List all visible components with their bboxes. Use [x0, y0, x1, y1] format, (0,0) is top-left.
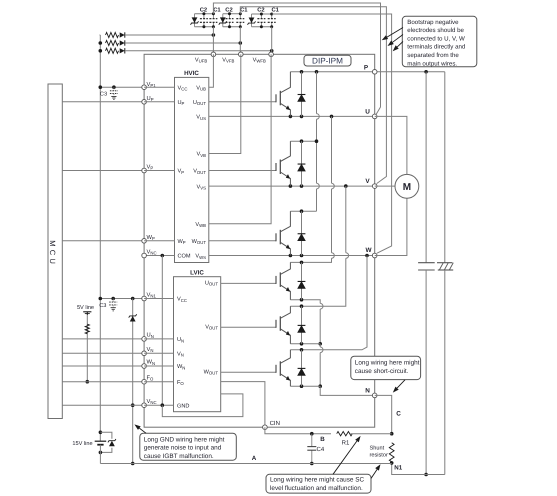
- svg-text:C1: C1: [213, 6, 221, 13]
- wire P bus vertical drop: [444, 72, 446, 263]
- wire bootstrap supply row U to bootstrap group 1: [125, 34, 213, 36]
- svg-text:separated from the: separated from the: [407, 52, 459, 59]
- wire Fo pin to LVIC: [144, 381, 173, 383]
- callout short-circuit note box: [351, 356, 421, 379]
- wire VVFB to HVIC VVB: [209, 54, 241, 153]
- junction Q4 emitter rail diode D4 anode: [300, 298, 304, 302]
- svg-text:VWB: VWB: [195, 222, 206, 228]
- diode D1 (freewheel): [301, 72, 303, 117]
- wire WP net (MCU to HVIC): [62, 240, 144, 242]
- svg-text:COM: COM: [178, 254, 191, 260]
- callout SC-fluctuation note box: [266, 474, 371, 493]
- junction W phase down tap: [365, 254, 369, 258]
- bootstrap group 3 bottom rail wire: [252, 26, 272, 28]
- junction C1 bottom g3: [270, 25, 273, 28]
- wire bootstrap group 2 down to VVFB pin: [239, 27, 241, 55]
- capacitor C3 lower (LVIC supply, dashed optional): [112, 299, 114, 303]
- pin V: [372, 184, 377, 189]
- wire rail top corner to resistor row 1: [99, 34, 102, 36]
- pin CIN: [263, 425, 268, 430]
- callout short-circuit arrow: [397, 380, 405, 388]
- svg-text:VN: VN: [177, 352, 184, 358]
- resistor bootstrap R3 (bootstrap supply row W): [106, 48, 119, 53]
- wire Q5 emitter rail: [290, 343, 320, 345]
- pin VNC upper: [142, 253, 147, 258]
- callout SC arrow to N1 wire: [371, 469, 377, 478]
- junction C3 top tap: [112, 85, 116, 89]
- wire 5V line to Fo pull-up resistor: [86, 315, 88, 382]
- junction C3 lower tap: [111, 297, 115, 301]
- wire rail to resistor row 2: [99, 42, 102, 44]
- pin WN: [142, 364, 147, 369]
- svg-text:VN1: VN1: [147, 293, 157, 299]
- resistor bootstrap R1 (bootstrap supply row U): [106, 32, 119, 37]
- junction P rail diode D1: [300, 70, 304, 74]
- svg-text:GND: GND: [177, 403, 189, 409]
- transistor Q4 (IGBT): [276, 262, 290, 299]
- wire bootstrap supply row W to bootstrap group 3: [125, 50, 272, 52]
- wire R1 to shunt top: [351, 433, 392, 435]
- wire battery to A net: [99, 445, 101, 464]
- wire U phase net (VUS to U terminal): [209, 115, 375, 117]
- wire zener column VN1 to A wire: [132, 299, 134, 464]
- earth ground symbol on bus return: [437, 262, 452, 264]
- junction Q5 emitter diode D5 anode: [300, 342, 304, 346]
- svg-text:FO: FO: [147, 375, 155, 381]
- svg-text:WOUT: WOUT: [192, 239, 207, 245]
- wire bootstrap negative electrode V route: [240, 7, 386, 184]
- svg-text:VP: VP: [147, 165, 154, 171]
- pin U: [372, 114, 377, 119]
- wire A net (15V return to N1): [100, 463, 391, 465]
- junction GND link: [161, 403, 165, 407]
- pin WP: [142, 239, 147, 244]
- junction C2 top g1: [202, 12, 205, 15]
- svg-text:WN: WN: [177, 364, 185, 370]
- 15V supply rail vertical wire: [99, 35, 101, 432]
- wire VNC lower net (MCU to GND): [62, 404, 144, 406]
- svg-text:C: C: [396, 411, 401, 418]
- pin VUFB: [211, 52, 216, 57]
- pin VNC lower: [142, 403, 147, 408]
- junction 5V pull-up at Fo wire: [86, 380, 90, 384]
- wire Q3 collector rail: [290, 210, 316, 212]
- pin VN: [142, 351, 147, 356]
- wire N net to N terminal: [320, 386, 375, 395]
- junction V phase down tap: [344, 184, 348, 188]
- svg-text:resistor: resistor: [370, 452, 388, 459]
- junction Q5 emitter rail join N vertical: [318, 342, 322, 346]
- transistor Q2 (IGBT): [276, 141, 290, 186]
- wire Q4 emitter rail to N vertical: [290, 300, 320, 304]
- svg-text:WN: WN: [147, 360, 156, 366]
- junction D3 anode at W wire: [300, 254, 304, 258]
- resistor Fo pull-up: [85, 324, 89, 334]
- junction Q2 rail P vertical: [315, 139, 319, 143]
- svg-text:VCC: VCC: [177, 297, 187, 303]
- wire W phase vertical to Q6 collector: [290, 256, 367, 350]
- junction bootstrap group 3 feed: [270, 49, 274, 53]
- junction C1 top g2: [239, 12, 242, 15]
- junction C2 bottom g3: [260, 25, 263, 28]
- transistor Q1 (IGBT): [276, 72, 290, 117]
- callout bootstrap arrow to U route: [387, 28, 403, 38]
- MCU block box: [48, 84, 62, 419]
- svg-text:Long GND wiring here might: Long GND wiring here might: [144, 437, 225, 444]
- svg-text:Long wiring here might: Long wiring here might: [355, 360, 420, 367]
- junction Q6 rail diode D6: [300, 348, 304, 352]
- wire bootstrap group 1 down to VUFB pin: [212, 27, 214, 55]
- svg-text:R1: R1: [342, 440, 350, 447]
- svg-text:C1: C1: [271, 6, 279, 13]
- pin Fo: [142, 379, 147, 384]
- svg-text:C3: C3: [99, 303, 106, 309]
- junction bus capacitor at bottom wire: [424, 473, 428, 477]
- svg-text:WOUT: WOUT: [204, 369, 219, 375]
- wire VP1 net (15V to VP1 pin): [100, 86, 144, 88]
- svg-text:VP: VP: [178, 169, 185, 175]
- wire VN1 net (15V to LVIC Vcc): [100, 298, 144, 300]
- diode D4 (freewheel): [301, 262, 303, 299]
- junction rail row 2: [99, 41, 103, 45]
- svg-text:C2: C2: [257, 6, 264, 13]
- svg-text:VUB: VUB: [196, 85, 206, 91]
- wire LVIC WOUT to IGBT Q6 gate: [221, 371, 276, 373]
- wire N vertical continue below Q5 emitter: [319, 344, 321, 347]
- callout SC arrow to R1: [333, 441, 357, 474]
- svg-text:VVS: VVS: [197, 184, 207, 190]
- capacitor C2 (group 2): [229, 14, 231, 19]
- svg-text:VOUT: VOUT: [205, 324, 218, 330]
- transistor Q3 (IGBT): [276, 211, 290, 255]
- junction C1 top g3: [270, 13, 273, 16]
- junction U phase down tap: [330, 115, 334, 119]
- pin UN: [142, 337, 147, 342]
- junction C2 bottom g2: [228, 25, 231, 28]
- junction Q6 emitter diode D6 anode: [300, 384, 304, 388]
- junction Q6 emitter rail join N vertical: [318, 384, 322, 388]
- wire battery top to zener branch: [100, 432, 112, 439]
- junction bootstrap group 1 feed: [212, 33, 216, 37]
- wire LVIC VOUT to IGBT Q5 gate: [221, 326, 276, 328]
- svg-text:terminals directly and: terminals directly and: [407, 44, 466, 51]
- svg-text:C2: C2: [225, 6, 232, 13]
- svg-text:CIN: CIN: [270, 420, 280, 427]
- junction bootstrap group 2 feed: [239, 41, 243, 45]
- wire U phase vertical to Q4 collector (hops over V and W wires): [331, 116, 333, 183]
- pin W: [372, 253, 377, 258]
- svg-text:electrodes should be: electrodes should be: [407, 27, 464, 34]
- wire N terminal to C node: [375, 395, 392, 433]
- wire bootstrap group 3 down to VWFB pin: [271, 27, 273, 55]
- shunt resistor: [389, 443, 394, 462]
- resistor bootstrap R2 (bootstrap supply row V): [106, 40, 119, 45]
- wire VWFB to HVIC VWB: [209, 54, 271, 223]
- wire bus return lower: [444, 270, 446, 475]
- svg-text:V: V: [365, 178, 370, 185]
- junction P rail inner vertical: [315, 70, 319, 74]
- svg-text:N: N: [365, 387, 370, 394]
- callout bootstrap arrow to W route: [397, 42, 403, 47]
- wire Q2 collector rail: [290, 140, 316, 142]
- svg-text:level fluctuation and malfunct: level fluctuation and malfunction.: [270, 485, 363, 492]
- wire VNC pin to LVIC GND: [144, 404, 173, 406]
- callout GND-noise note box: [140, 433, 237, 460]
- pin UP: [142, 100, 147, 105]
- junction zener tap VN1: [131, 297, 135, 301]
- junction P rail bus capacitor: [424, 70, 428, 74]
- wire V phase net (VVS to V terminal): [209, 185, 375, 187]
- motor M: [395, 174, 419, 198]
- svg-text:W: W: [365, 247, 372, 254]
- svg-text:M: M: [403, 182, 411, 193]
- wire rail to resistor row 3: [99, 50, 102, 52]
- svg-text:C3: C3: [100, 91, 107, 97]
- wire zener bottom to battery bottom: [100, 448, 112, 453]
- svg-text:VNC: VNC: [147, 250, 157, 256]
- junction C1 bottom g1: [212, 25, 215, 28]
- wire VUFB to HVIC VUB: [209, 54, 214, 87]
- callout bootstrap arrow to V route: [393, 35, 404, 43]
- resistor R1: [337, 432, 353, 436]
- zener diode 15V line clamp: [109, 441, 115, 447]
- svg-text:UN: UN: [147, 333, 154, 339]
- junction Q2 rail diode D2: [300, 139, 304, 143]
- svg-text:DIP-IPM: DIP-IPM: [312, 57, 343, 66]
- wire WN net (MCU to LVIC): [62, 365, 144, 367]
- svg-text:VVFB: VVFB: [222, 57, 234, 63]
- pin VWFB: [269, 52, 274, 57]
- wire DC bus capacitor branch upper: [425, 72, 427, 263]
- wire UP net (MCU to HVIC): [62, 101, 144, 103]
- svg-text:VWS: VWS: [195, 254, 206, 260]
- svg-text:HVIC: HVIC: [184, 70, 199, 77]
- wire VP pin to HVIC: [144, 170, 174, 172]
- wire Fo net (MCU to LVIC): [62, 381, 144, 383]
- svg-text:VNC: VNC: [147, 399, 157, 405]
- junction rail VN1: [99, 297, 103, 301]
- svg-text:VVB: VVB: [197, 152, 207, 158]
- capacitor C2 (group 3): [260, 14, 262, 19]
- svg-text:5V line: 5V line: [77, 304, 94, 311]
- pin P: [372, 70, 377, 75]
- svg-text:C4: C4: [317, 446, 325, 453]
- wire W phase net (VWS to W terminal): [209, 255, 375, 257]
- junction C4 top: [310, 432, 314, 436]
- wire DC bus capacitor branch lower: [425, 270, 427, 475]
- capacitor C1 (group 1): [212, 14, 214, 19]
- junction C2 top g3: [260, 13, 263, 16]
- svg-text:LVIC: LVIC: [190, 270, 204, 277]
- wire WP pin to HVIC: [144, 240, 174, 242]
- wire COM to GND vertical link: [161, 256, 163, 406]
- junction D1 anode at U wire: [300, 115, 304, 119]
- svg-text:connected to U, V, W: connected to U, V, W: [407, 35, 465, 42]
- svg-text:U: U: [365, 109, 370, 116]
- pin VN1: [142, 296, 147, 301]
- wire N vertical continue to bottom emitter rail: [319, 353, 321, 387]
- wire bootstrap supply row V to bootstrap group 2: [125, 42, 240, 44]
- svg-text:FO: FO: [177, 380, 184, 386]
- zener diode bootstrap group 3: [251, 14, 253, 27]
- wire bootstrap negative electrode W route: [272, 14, 392, 253]
- bootstrap group 1 bottom rail wire: [195, 26, 214, 28]
- svg-text:UP: UP: [147, 96, 154, 102]
- svg-text:UOUT: UOUT: [193, 100, 206, 106]
- svg-text:P: P: [364, 65, 369, 72]
- junction C2 bottom g1: [202, 25, 205, 28]
- wire N vertical continue below Q5 rail: [319, 309, 321, 344]
- HVIC block box: [175, 77, 209, 262]
- junction Q3 emitter at W wire: [289, 254, 293, 258]
- wire HVIC WOUT to IGBT Q3 gate: [209, 240, 276, 242]
- pin N: [372, 393, 377, 398]
- wire P inner vertical to Q2 Q3 collectors (with hops): [316, 72, 318, 114]
- callout bootstrap note box: [402, 16, 477, 67]
- zener diode bootstrap group 2: [222, 14, 224, 27]
- DIP-IPM module outline box: [144, 54, 375, 427]
- svg-text:WP: WP: [147, 235, 155, 241]
- svg-text:VUS: VUS: [196, 115, 206, 121]
- svg-text:C1: C1: [240, 6, 248, 13]
- wire HVIC VOUT to IGBT Q2 gate: [209, 170, 276, 172]
- pin VP: [142, 168, 147, 173]
- junction zener column at VNC wire: [131, 403, 135, 407]
- svg-text:N1: N1: [394, 465, 402, 472]
- diode D3 (freewheel): [301, 211, 303, 255]
- wire UN net (MCU to LVIC): [62, 338, 144, 340]
- svg-text:B: B: [320, 436, 325, 443]
- svg-text:WP: WP: [178, 239, 186, 245]
- capacitor C3 (HVIC supply, dashed optional): [113, 87, 115, 91]
- wire LVIC N-side loop to GND: [162, 394, 243, 417]
- diode D6 (freewheel): [301, 350, 303, 386]
- capacitor C2 (group 1): [203, 14, 205, 19]
- diode D2 (freewheel): [301, 141, 303, 186]
- wire Q6 emitter rail: [290, 385, 320, 387]
- svg-text:Long wiring here might cause S: Long wiring here might cause SC: [270, 477, 365, 484]
- wire VP net (MCU to HVIC): [62, 170, 144, 172]
- zener diode bootstrap group 1: [194, 14, 196, 27]
- wire bottom return to shunt: [392, 463, 445, 475]
- wire WN pin to LVIC: [144, 365, 173, 367]
- svg-text:A: A: [252, 455, 257, 462]
- wire LVIC CIN out to CIN pin: [221, 382, 265, 428]
- wire HVIC UOUT to IGBT Q1 gate: [209, 101, 276, 103]
- bootstrap group 3 top rail wire: [252, 13, 272, 15]
- wire LVIC UOUT to IGBT Q4 gate: [221, 282, 276, 284]
- zener diode 15V clamp (LVIC): [130, 316, 136, 322]
- LVIC block box: [174, 277, 221, 412]
- junction zener column at A wire: [131, 462, 135, 466]
- diode D5 (freewheel): [301, 306, 303, 344]
- wire W terminal to motor: [375, 198, 407, 255]
- capacitor C4: [311, 434, 313, 447]
- battery 15V line symbol: [95, 440, 107, 442]
- bootstrap group 1 top rail wire: [195, 13, 214, 15]
- junction C4 bottom: [310, 462, 314, 466]
- svg-text:VWFB: VWFB: [253, 57, 266, 63]
- svg-text:VUFB: VUFB: [195, 57, 207, 63]
- wire V phase vertical to Q5 collector (hop over W wire): [345, 186, 347, 253]
- wire bootstrap negative electrode U route: [213, 3, 380, 114]
- wire VN1 pin to LVIC Vcc: [144, 298, 173, 300]
- svg-text:UN: UN: [177, 337, 184, 343]
- svg-text:C2: C2: [200, 6, 207, 13]
- svg-text:Bootstrap negative: Bootstrap negative: [407, 19, 459, 26]
- transistor Q6 (IGBT): [276, 350, 290, 386]
- junction C1 top g1: [212, 12, 215, 15]
- svg-text:generate noise to input and: generate noise to input and: [144, 445, 222, 452]
- diode bootstrap D3: [120, 48, 125, 53]
- junction D2 anode at V wire: [300, 184, 304, 188]
- junction C1 bottom g2: [239, 25, 242, 28]
- diode bootstrap D2: [120, 40, 125, 45]
- wire Q6 collector rail hop over N vertical: [320, 347, 323, 353]
- diode bootstrap D1: [120, 32, 125, 37]
- wire VN net (MCU to LVIC): [62, 352, 144, 354]
- wire UP pin to HVIC: [144, 101, 174, 103]
- junction Q5 rail diode D5: [300, 304, 304, 308]
- junction Q2 emitter at V wire: [289, 184, 293, 188]
- svg-text:VN: VN: [147, 347, 154, 353]
- svg-text:15V line: 15V line: [72, 440, 92, 447]
- junction rail row 3: [99, 49, 103, 53]
- bootstrap group 2 top rail wire: [223, 13, 241, 15]
- wire V terminal to motor: [375, 185, 395, 187]
- DIP-IPM label box: [304, 55, 351, 66]
- svg-text:UP: UP: [178, 100, 185, 106]
- pin VVFB: [239, 52, 244, 57]
- svg-text:VCC: VCC: [178, 85, 188, 91]
- wire CIN pin to B node and R1 to shunt top: [265, 427, 331, 434]
- wire VN pin to LVIC: [144, 352, 173, 354]
- junction C2 top g2: [228, 12, 231, 15]
- junction Q3 rail diode D3: [300, 209, 304, 213]
- junction rail VP1: [99, 85, 103, 89]
- svg-text:cause IGBT malfunction.: cause IGBT malfunction.: [144, 453, 214, 460]
- junction N1 node: [390, 461, 394, 465]
- capacitor C1 (group 3): [271, 14, 273, 19]
- wire VNC upper net to COM: [144, 255, 174, 257]
- junction Q4 rail diode D4: [300, 261, 304, 265]
- pin VP1: [142, 85, 147, 90]
- bootstrap group 2 bottom rail wire: [223, 26, 241, 28]
- wire UN pin to LVIC: [144, 338, 173, 340]
- junction Q1 emitter at U wire: [289, 115, 293, 119]
- wire 15V rail into battery: [99, 432, 101, 441]
- svg-text:MCU: MCU: [48, 240, 57, 267]
- wire VP1 pin to HVIC Vcc: [144, 86, 174, 88]
- wire U terminal to motor: [375, 116, 407, 174]
- svg-text:main output wires.: main output wires.: [407, 60, 457, 67]
- junction shunt top (C node): [390, 432, 394, 436]
- junction battery top node: [99, 431, 103, 435]
- svg-text:Shunt: Shunt: [370, 445, 385, 452]
- transistor Q5 (IGBT): [276, 306, 290, 344]
- svg-text:VOUT: VOUT: [193, 169, 206, 175]
- capacitor C1 (group 2): [239, 14, 241, 19]
- wire P rail (DC bus positive): [290, 71, 444, 73]
- svg-text:cause short-circuit.: cause short-circuit.: [355, 368, 409, 375]
- callout GND-noise arrow: [139, 428, 146, 433]
- capacitor DC bus electrolytic: [418, 262, 435, 264]
- svg-text:UOUT: UOUT: [205, 280, 218, 286]
- junction battery bottom node: [99, 451, 103, 455]
- 5V line terminal symbol: [86, 312, 88, 315]
- junction VNC-COM vertical: [161, 254, 165, 258]
- wire Q5 collector rail hop over N vertical: [320, 303, 323, 309]
